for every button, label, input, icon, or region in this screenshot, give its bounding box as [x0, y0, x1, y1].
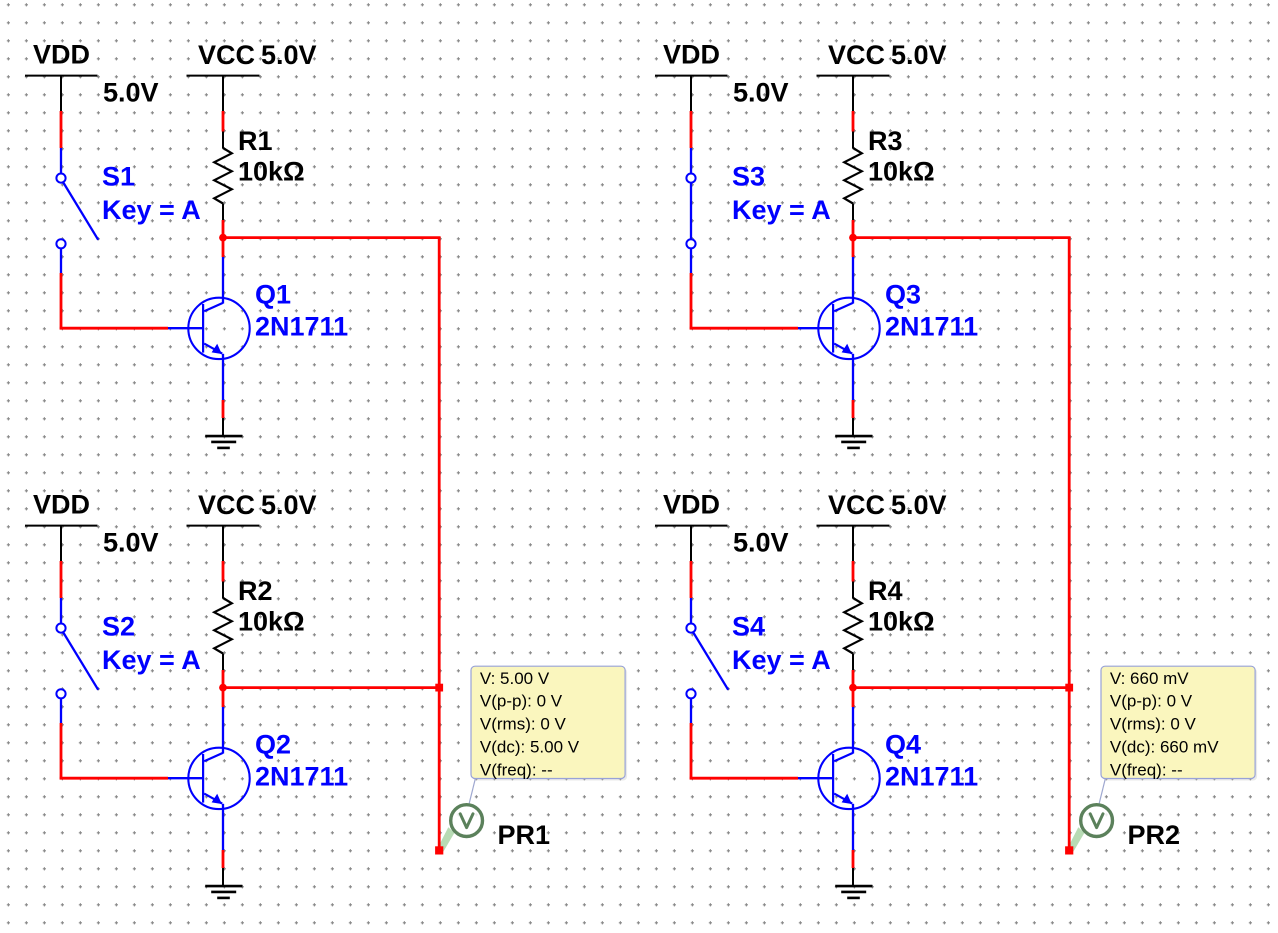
svg-text:Q1: Q1 — [255, 280, 291, 310]
svg-text:VDD: VDD — [33, 40, 90, 70]
svg-text:2N1711: 2N1711 — [885, 312, 978, 342]
svg-text:V(rms): 0 V: V(rms): 0 V — [1110, 715, 1197, 734]
svg-text:V(p-p): 0 V: V(p-p): 0 V — [1110, 692, 1193, 711]
svg-text:S1: S1 — [102, 162, 135, 192]
svg-text:VCC: VCC — [828, 490, 885, 520]
svg-text:Key = A: Key = A — [732, 195, 831, 225]
svg-text:5.0V: 5.0V — [103, 528, 159, 558]
svg-text:PR1: PR1 — [498, 820, 551, 850]
svg-text:V(dc): 660 mV: V(dc): 660 mV — [1110, 737, 1219, 756]
svg-text:Key = A: Key = A — [102, 645, 201, 675]
svg-text:R4: R4 — [868, 576, 903, 606]
svg-text:V(dc): 5.00 V: V(dc): 5.00 V — [480, 737, 580, 756]
svg-text:Q2: Q2 — [255, 730, 291, 760]
svg-text:V(p-p): 0 V: V(p-p): 0 V — [480, 692, 563, 711]
svg-text:10kΩ: 10kΩ — [238, 157, 305, 187]
svg-text:2N1711: 2N1711 — [255, 312, 348, 342]
svg-text:10kΩ: 10kΩ — [238, 607, 305, 637]
svg-text:5.0V: 5.0V — [733, 78, 789, 108]
svg-text:VCC: VCC — [198, 40, 255, 70]
svg-text:V(freq): --: V(freq): -- — [1110, 760, 1183, 779]
svg-text:V(freq): --: V(freq): -- — [480, 760, 553, 779]
svg-text:S2: S2 — [102, 612, 135, 642]
svg-text:Q3: Q3 — [885, 280, 921, 310]
svg-text:2N1711: 2N1711 — [255, 762, 348, 792]
svg-text:V(rms): 0 V: V(rms): 0 V — [480, 715, 567, 734]
svg-text:R1: R1 — [238, 126, 273, 156]
svg-text:S3: S3 — [732, 162, 765, 192]
svg-text:VDD: VDD — [663, 490, 720, 520]
svg-text:5.0V: 5.0V — [103, 78, 159, 108]
svg-text:10kΩ: 10kΩ — [868, 157, 935, 187]
svg-text:Q4: Q4 — [885, 730, 921, 760]
svg-text:2N1711: 2N1711 — [885, 762, 978, 792]
svg-text:R2: R2 — [238, 576, 273, 606]
svg-text:VDD: VDD — [663, 40, 720, 70]
svg-text:V: 5.00 V: V: 5.00 V — [480, 669, 550, 688]
svg-text:VDD: VDD — [33, 490, 90, 520]
svg-text:Key = A: Key = A — [732, 645, 831, 675]
svg-text:5.0V: 5.0V — [891, 490, 947, 520]
svg-text:S4: S4 — [732, 612, 765, 642]
svg-text:R3: R3 — [868, 126, 903, 156]
svg-text:5.0V: 5.0V — [261, 40, 317, 70]
svg-text:V: 660 mV: V: 660 mV — [1110, 669, 1189, 688]
svg-text:10kΩ: 10kΩ — [868, 607, 935, 637]
svg-text:5.0V: 5.0V — [261, 490, 317, 520]
svg-text:5.0V: 5.0V — [891, 40, 947, 70]
svg-text:5.0V: 5.0V — [733, 528, 789, 558]
svg-text:Key = A: Key = A — [102, 195, 201, 225]
svg-text:VCC: VCC — [198, 490, 255, 520]
svg-text:PR2: PR2 — [1128, 820, 1181, 850]
svg-text:VCC: VCC — [828, 40, 885, 70]
